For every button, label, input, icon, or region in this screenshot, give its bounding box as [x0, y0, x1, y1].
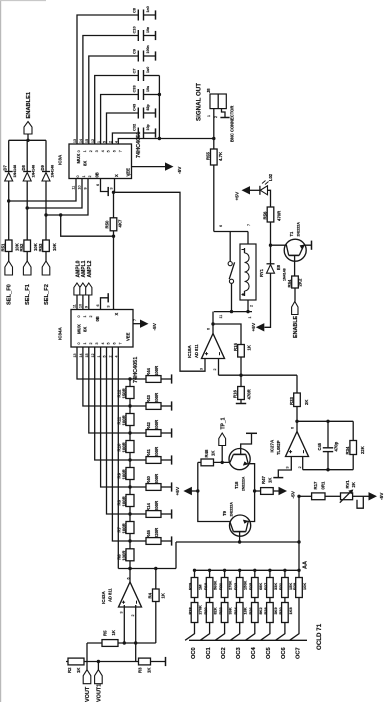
- node ladder 2: [128, 404, 131, 407]
- svg-text:1K: 1K: [146, 667, 151, 673]
- svg-text:39K: 39K: [228, 607, 233, 614]
- value 200R (R43): [154, 392, 159, 403]
- value 1K (R5): [111, 629, 116, 635]
- svg-text:3: 3: [95, 343, 99, 345]
- value 0R1 (R17): [321, 481, 326, 489]
- value 39K (R22): [228, 607, 233, 614]
- label C9: [132, 48, 137, 54]
- wire IC3A VEE to -5V: [132, 166, 166, 168]
- label D8: [21, 165, 26, 171]
- wire T1 base: [294, 255, 296, 276]
- label R15: [233, 343, 238, 351]
- svg-text:10u: 10u: [146, 86, 150, 92]
- svg-text:2N2222A: 2N2222A: [296, 222, 300, 237]
- label R17: [313, 481, 318, 489]
- resistor R33 2K: [294, 375, 301, 421]
- wire OC4 entry: [245, 623, 254, 641]
- node ladder 1: [128, 377, 131, 380]
- pin number 14 (IC34A channel 1): [79, 354, 83, 358]
- ground J8 shield: [220, 109, 229, 118]
- pin number 1 (IC34A channel 4): [97, 356, 101, 358]
- ground terminal of C43: [144, 108, 156, 117]
- value 1M (R39): [198, 585, 203, 590]
- value 2K2 (R54): [297, 278, 302, 286]
- resistor R26 8K2: [252, 598, 259, 623]
- svg-text:R48: R48: [204, 449, 209, 457]
- svg-text:200R: 200R: [154, 446, 159, 457]
- connector SEL_F0: [5, 261, 13, 275]
- value 82K (R20): [213, 607, 218, 614]
- label MUX (IC34A): [77, 324, 82, 334]
- pin number 12 (IC3A channel 3): [91, 139, 95, 143]
- value 200R (R14): [154, 500, 159, 511]
- resistor R2 1K: [68, 658, 84, 665]
- select digit 0 (IC3A): [76, 176, 80, 178]
- svg-text:R43: R43: [146, 395, 151, 403]
- label R30: [278, 607, 283, 614]
- pin number 6 (IC3A inhibit): [96, 184, 100, 186]
- wire OC1 entry: [200, 623, 209, 641]
- channel digit 1 (IC3A): [83, 150, 87, 152]
- label IC43A: [101, 590, 106, 604]
- value 1N4148 (D9): [50, 165, 54, 178]
- svg-text:R50: R50: [104, 220, 109, 228]
- svg-text:R20: R20: [203, 607, 208, 614]
- svg-text:0B: 0B: [95, 316, 100, 321]
- wire IC34A channel 2 to ladder node: [89, 347, 130, 433]
- label AMPL0: [75, 260, 81, 277]
- wire select C branch: [59, 213, 115, 238]
- svg-text:R28: R28: [263, 607, 268, 615]
- node ladder 4: [128, 458, 131, 461]
- potentiometer RV1 2K: [340, 489, 364, 508]
- resistor R23 150K: [236, 570, 243, 597]
- label VEE (IC3A): [126, 168, 131, 177]
- node ladder 5: [128, 485, 131, 488]
- label R47: [261, 476, 266, 484]
- wire R55 to relay line: [213, 165, 215, 232]
- label 8X (IC3A): [83, 161, 88, 166]
- value C43 82p: [146, 104, 150, 111]
- label R16: [233, 390, 238, 398]
- power +5V (LED): [235, 186, 260, 200]
- channel digit 4 (IC3A): [101, 150, 105, 152]
- resistor R3 1K: [139, 658, 151, 665]
- capacitor C32: [138, 128, 143, 139]
- svg-text:3: 3: [110, 188, 114, 190]
- svg-text:T9: T9: [222, 510, 227, 516]
- diode D8 1N4148: [23, 172, 31, 182]
- pin number 6 (IC34A): [96, 305, 100, 307]
- connector AMPL1: [80, 283, 86, 310]
- channel digit 1 (IC34A): [83, 343, 87, 345]
- svg-text:OCLD 71: OCLD 71: [316, 623, 323, 650]
- wire RV1 to -5V: [353, 495, 369, 497]
- resistor R8 100R (series): [126, 487, 134, 514]
- svg-text:L02: L02: [268, 173, 273, 181]
- pin 1 label (coil): [248, 317, 252, 319]
- value 1N4148 (E8): [283, 268, 287, 281]
- capacitor C9: [138, 51, 143, 62]
- svg-text:74HC4051: 74HC4051: [136, 132, 142, 158]
- svg-text:C32: C32: [132, 123, 137, 131]
- svg-text:BNC CONNECTOR: BNC CONNECTOR: [230, 106, 235, 142]
- label R39: [188, 582, 193, 590]
- svg-text:11: 11: [72, 186, 76, 190]
- svg-text:AD 811: AD 811: [108, 588, 113, 602]
- svg-text:R41: R41: [146, 449, 151, 457]
- svg-text:10: 10: [78, 304, 82, 308]
- label T18: [234, 481, 239, 489]
- pin number 10 (IC34A select): [78, 304, 82, 308]
- label AD 811 (IC43A): [108, 588, 113, 602]
- value 33K (R27): [273, 583, 278, 590]
- connector J8 BNC: [210, 94, 226, 109]
- label R50: [104, 220, 109, 228]
- svg-text:R22: R22: [218, 607, 223, 615]
- svg-text:R51: R51: [1, 243, 6, 251]
- resistor R7 100R (series): [126, 514, 134, 541]
- channel digit 3 (IC34A): [95, 343, 99, 345]
- resistor R53 10K: [43, 240, 50, 252]
- wire select 2 to IC3A: [44, 179, 88, 217]
- value 1K (R4): [160, 592, 165, 598]
- value 220R (R45): [154, 527, 159, 538]
- svg-text:0R1: 0R1: [321, 481, 326, 489]
- label R48: [204, 449, 209, 457]
- resistor R12 150R (series): [126, 379, 134, 406]
- pin number 2 (IC3A channel 6): [109, 141, 113, 143]
- svg-text:11: 11: [219, 315, 223, 319]
- node bus OC2: [223, 569, 226, 572]
- label R45: [146, 530, 151, 538]
- resistor R19 560K: [206, 570, 213, 597]
- resistor R52 10K: [24, 240, 31, 252]
- label R42: [146, 422, 151, 430]
- pin number 1 (IC3A channel 4): [97, 141, 101, 143]
- svg-text:1u0: 1u0: [146, 67, 150, 73]
- value 10K (R53): [52, 242, 57, 251]
- svg-text:1: 1: [82, 176, 86, 178]
- connector VOUT1: [95, 662, 103, 684]
- resistor R15 1K (feedback): [213, 324, 244, 375]
- svg-text:1K: 1K: [268, 477, 273, 483]
- pin number 9 (IC34A select): [84, 306, 88, 308]
- pin number 14 (IC3A channel 1): [79, 139, 83, 143]
- node bus OC4: [253, 569, 256, 572]
- wire select 1 to IC3A: [26, 179, 83, 210]
- connector AMPL2: [86, 283, 92, 310]
- svg-text:7: 7: [119, 150, 123, 152]
- channel digit 4 (IC34A): [101, 343, 105, 345]
- channel digit 2 (IC3A): [89, 150, 93, 152]
- svg-text:X: X: [114, 174, 119, 177]
- value 100R (R10): [121, 441, 126, 452]
- svg-text:R3: R3: [138, 667, 143, 673]
- svg-text:1N4148: 1N4148: [32, 165, 36, 178]
- value 1K (R47): [268, 477, 273, 483]
- svg-text:C45: C45: [317, 442, 322, 450]
- wire LED to R56: [268, 190, 271, 207]
- connector ENABLE: [292, 302, 298, 315]
- label VOUT: [85, 686, 91, 702]
- value 2K (R33): [304, 399, 309, 405]
- wire OC2 entry: [215, 623, 224, 641]
- wire R17 to RV1: [325, 495, 341, 497]
- node IC3A X output: [112, 191, 115, 194]
- svg-text:R5: R5: [103, 630, 108, 636]
- wire X to IC18A input: [114, 192, 206, 371]
- svg-text:IC18A: IC18A: [187, 344, 192, 358]
- label SEL_F1: [25, 284, 31, 305]
- label R31: [278, 582, 283, 590]
- label R22: [218, 607, 223, 615]
- label E8: [276, 264, 281, 270]
- wire anode D7: [8, 181, 10, 240]
- svg-text:R23: R23: [233, 582, 238, 590]
- svg-text:SIGNAL OUT: SIGNAL OUT: [196, 83, 203, 121]
- svg-text:1K: 1K: [210, 450, 215, 456]
- svg-text:1K: 1K: [76, 667, 81, 673]
- label ENABLE1: [26, 92, 32, 119]
- svg-text:R42: R42: [146, 422, 151, 430]
- svg-text:22K: 22K: [360, 445, 365, 454]
- svg-text:0: 0: [76, 176, 80, 178]
- label IC27A: [270, 439, 275, 453]
- label AA: [303, 561, 309, 569]
- svg-text:MUX: MUX: [77, 324, 82, 334]
- wire IC43A output: [129, 569, 131, 583]
- svg-text:R31: R31: [278, 582, 283, 590]
- ground IC34A pin 6: [101, 293, 109, 309]
- label IC18A: [187, 344, 192, 358]
- svg-text:D9: D9: [40, 165, 45, 171]
- pin 6 label (IC27A): [291, 427, 295, 429]
- ground terminal (T18 collector): [246, 432, 257, 434]
- value 100R (R6): [121, 550, 126, 561]
- svg-text:12: 12: [91, 139, 95, 143]
- value 1K (R48): [210, 450, 215, 456]
- svg-text:AA: AA: [303, 561, 309, 569]
- label OCLD 71: [316, 623, 323, 650]
- value 150K (R23): [243, 581, 248, 590]
- svg-text:R44: R44: [146, 368, 151, 376]
- resistor R22 39K: [221, 598, 228, 623]
- node ladder 6: [128, 512, 131, 515]
- wire mirror left leg: [196, 462, 230, 521]
- ground terminal of C10: [144, 31, 156, 40]
- svg-text:1: 1: [83, 316, 87, 318]
- label R14: [146, 503, 151, 511]
- svg-text:+5V: +5V: [251, 322, 257, 331]
- svg-text:2: 2: [89, 343, 93, 345]
- wire R54 to ENABLE: [294, 288, 296, 302]
- op-amp IC27A TL082P: [286, 432, 309, 457]
- value 2N2222A (T9): [230, 502, 234, 517]
- label R52: [19, 243, 24, 251]
- ground terminal (T1 emitter): [311, 241, 313, 250]
- value 560K (R19): [213, 581, 218, 590]
- label C45: [317, 442, 322, 450]
- svg-text:D8: D8: [21, 165, 26, 171]
- node AA top: [297, 495, 300, 498]
- pin number 2 (IC34A channel 6): [109, 356, 113, 358]
- svg-text:470p: 470p: [333, 441, 338, 451]
- svg-text:270K: 270K: [228, 581, 233, 590]
- wire MUX1 channel 2 to C9: [89, 56, 139, 144]
- resistor R50 4K7: [110, 218, 117, 231]
- label D7: [3, 165, 8, 171]
- svg-text:6: 6: [96, 305, 100, 307]
- select digit 0 (IC34A): [77, 316, 81, 318]
- label IC34A: [58, 326, 63, 340]
- transistor T1 2N2222A: [271, 239, 312, 261]
- capacitor C8: [138, 10, 143, 21]
- label TL082P (IC27A): [276, 440, 281, 455]
- resistor R11 100R (series): [126, 406, 134, 433]
- svg-text:6: 6: [219, 225, 223, 227]
- wire OC3 entry: [230, 623, 239, 641]
- connector SEL_F1: [23, 261, 31, 275]
- value 1N4148 (D8): [32, 165, 36, 178]
- svg-text:OC6: OC6: [281, 647, 287, 659]
- label RV1: [345, 480, 350, 489]
- pin number 12 (IC34A channel 3): [91, 354, 95, 358]
- ground terminal of C32: [144, 128, 156, 137]
- wire IC43A pin3 input: [123, 605, 125, 643]
- svg-text:R29: R29: [292, 582, 297, 590]
- svg-text:R38: R38: [188, 607, 193, 615]
- pin 6 label (IC18A): [207, 328, 211, 330]
- label R56: [262, 211, 267, 219]
- resistor R55 4.7K: [211, 149, 218, 165]
- svg-text:2K2: 2K2: [297, 278, 302, 286]
- value 100R (R44): [154, 365, 159, 376]
- svg-text:200R: 200R: [154, 419, 159, 430]
- label TP_1: [220, 417, 226, 429]
- svg-text:1N4148: 1N4148: [50, 165, 54, 178]
- wire contact to lower line: [231, 283, 233, 311]
- label R20: [203, 607, 208, 614]
- wire IC27A pin2: [302, 457, 304, 470]
- svg-text:3: 3: [107, 306, 111, 308]
- op-amp IC18A AD 811: [202, 334, 225, 359]
- wire IC3A X pin: [114, 179, 115, 193]
- channel digit 6 (IC34A): [113, 343, 117, 345]
- label R21: [218, 582, 223, 590]
- power +5V (mirror): [175, 486, 198, 495]
- channel digit 7 (IC34A): [119, 343, 123, 345]
- svg-text:2: 2: [131, 615, 135, 617]
- svg-text:1n0: 1n0: [146, 6, 150, 12]
- wire IC43A pin2 input: [135, 605, 137, 662]
- svg-text:100R: 100R: [121, 522, 126, 533]
- label R54: [287, 279, 292, 287]
- pin number 10 (IC3A select): [78, 186, 82, 190]
- label R5: [103, 630, 108, 636]
- value 470R (R56): [276, 210, 281, 221]
- wire pin2 node line: [66, 660, 166, 663]
- label 0B (IC3A inhibit): [95, 172, 100, 177]
- pin number 5 (IC34A channel 5): [103, 356, 107, 358]
- svg-text:8X: 8X: [83, 161, 88, 166]
- resistor R16 470R: [238, 375, 245, 403]
- svg-text:R15: R15: [233, 343, 238, 351]
- wire OC bus line: [189, 639, 307, 641]
- svg-text:R33: R33: [289, 397, 294, 405]
- svg-text:6: 6: [96, 184, 100, 186]
- label R44: [146, 368, 151, 376]
- node R33/IC27A: [295, 420, 298, 423]
- value C33 10u: [146, 86, 150, 92]
- label X (IC34A): [114, 313, 119, 316]
- svg-text:1K: 1K: [160, 592, 165, 598]
- value 270K (R21): [228, 581, 233, 590]
- svg-text:R14: R14: [146, 503, 151, 511]
- value 15K (R31): [288, 583, 293, 590]
- resistor R51 10K: [5, 240, 12, 252]
- resistor R47 1K: [255, 488, 279, 495]
- net label OC6: [281, 647, 287, 659]
- svg-text:T18: T18: [234, 481, 239, 489]
- resistor R38 270K: [191, 598, 198, 623]
- wire cathode D8: [26, 140, 28, 171]
- resistor R27 33K: [267, 570, 274, 597]
- resistor R24 18K: [236, 598, 243, 623]
- diode D9 1N4148: [42, 172, 50, 182]
- wire IC34A channel 4 to ladder node: [101, 347, 130, 487]
- svg-text:0: 0: [77, 343, 81, 345]
- label IC3A: [58, 154, 63, 165]
- wire output to feedback riser: [175, 542, 177, 569]
- multiplexer IC3A 74HC4051: [69, 144, 132, 179]
- wire IC34A channel 0 to ladder node: [77, 347, 130, 379]
- svg-text:C8: C8: [132, 7, 137, 13]
- wire IC27A pin3 ground: [273, 457, 291, 478]
- svg-text:200R: 200R: [154, 473, 159, 484]
- svg-text:SEL_F0: SEL_F0: [7, 284, 13, 305]
- svg-text:7: 7: [133, 319, 137, 321]
- net label OC5: [266, 647, 272, 659]
- label MUX (IC3A): [76, 154, 81, 164]
- wire relay top line: [214, 231, 248, 233]
- svg-text:-5V: -5V: [152, 322, 158, 330]
- wire ENABLE1 bus: [9, 139, 46, 142]
- label R12: [117, 389, 122, 397]
- svg-text:5: 5: [107, 343, 111, 345]
- value 10K (R29): [302, 583, 307, 590]
- label SEL_F2: [44, 284, 50, 305]
- svg-text:2: 2: [88, 176, 92, 178]
- svg-text:R56: R56: [262, 211, 267, 219]
- label C43: [132, 103, 137, 111]
- wire C7 to output riser: [144, 75, 160, 77]
- power +5V (relay): [251, 322, 264, 331]
- wire R51 to SEL connector: [8, 252, 10, 262]
- svg-text:D7: D7: [3, 165, 8, 171]
- label R53: [38, 243, 43, 251]
- pin 6 label (IC43A): [126, 578, 130, 580]
- wire OC6 entry: [276, 623, 285, 641]
- label T1: [289, 231, 294, 237]
- svg-text:IC3A: IC3A: [58, 154, 63, 165]
- wire R52 to SEL connector: [26, 252, 28, 262]
- label R8: [117, 499, 122, 505]
- net label OC2: [221, 647, 227, 659]
- svg-text:R39: R39: [188, 582, 193, 590]
- svg-text:1: 1: [83, 150, 87, 152]
- label SIGNAL OUT: [196, 83, 203, 121]
